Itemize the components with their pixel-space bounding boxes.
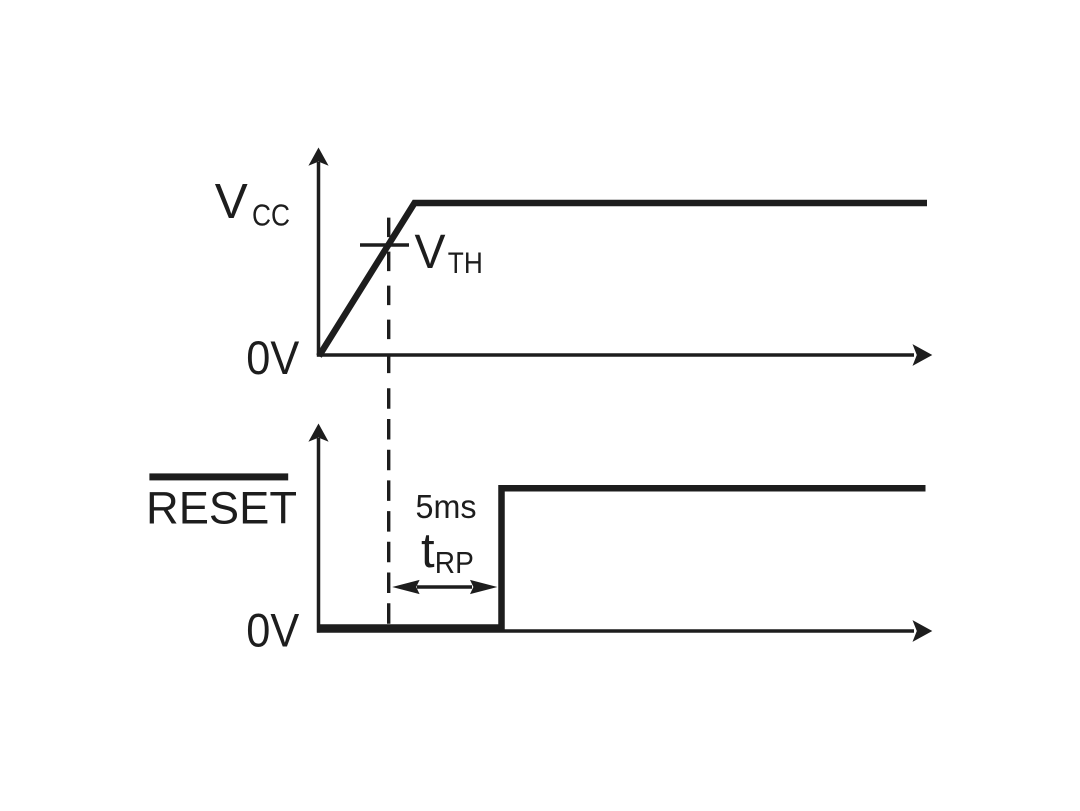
svg-text:RP: RP — [435, 546, 474, 580]
y-axis (bottom plot RESET) — [317, 438, 321, 633]
dashed vertical line at VTH crossing (lower part) — [387, 388, 390, 630]
x-axis arrowhead (bottom plot) — [913, 620, 933, 642]
x-axis (top plot) — [317, 353, 914, 357]
y-axis (top plot VCC) — [317, 162, 321, 357]
x-axis (bottom plot) — [317, 629, 914, 633]
VTH threshold cross tick — [360, 243, 409, 247]
RESET overline — [149, 473, 288, 480]
svg-text:t: t — [421, 524, 435, 578]
dashed vertical line at VTH crossing (upper part) — [387, 218, 390, 374]
svg-text:TH: TH — [448, 247, 483, 280]
svg-text:V: V — [415, 226, 446, 279]
svg-text:0V: 0V — [246, 331, 300, 384]
y-axis arrowhead (top plot) — [308, 148, 328, 166]
tRP arrowhead right — [470, 580, 497, 594]
RESET waveform: low level, rising edge, high level — [319, 488, 926, 627]
y-axis arrowhead (bottom plot) — [308, 424, 328, 442]
x-axis arrowhead (top plot) — [913, 344, 933, 366]
svg-text:V: V — [215, 174, 248, 229]
svg-text:CC: CC — [252, 199, 290, 233]
tRP arrowhead left — [392, 580, 419, 594]
tRP double-headed arrow line — [417, 585, 472, 589]
VCC waveform ramp and flat level — [319, 203, 927, 356]
svg-text:RESET: RESET — [146, 483, 297, 534]
svg-text:5ms: 5ms — [416, 488, 477, 525]
svg-text:0V: 0V — [246, 604, 300, 657]
